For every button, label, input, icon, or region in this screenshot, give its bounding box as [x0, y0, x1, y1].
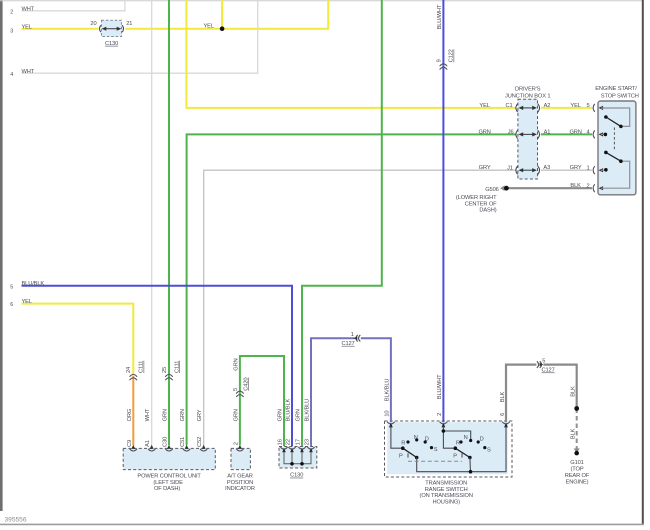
svg-text:YEL: YEL [479, 103, 489, 109]
svg-text:A1: A1 [544, 129, 551, 135]
svg-text:A3: A3 [543, 165, 550, 171]
svg-text:GRN: GRN [233, 409, 239, 421]
svg-text:R: R [401, 441, 405, 447]
svg-text:J1: J1 [507, 165, 513, 171]
svg-text:2: 2 [437, 413, 443, 416]
connector C130 inline connector body on wire row 3 [102, 20, 122, 36]
svg-text:C127: C127 [542, 368, 555, 374]
switch S1 internal stub from pin 1 [601, 169, 605, 171]
svg-text:G506: G506 [485, 187, 498, 193]
transmission range switch right blade [455, 448, 470, 457]
svg-text:ENGINE START/: ENGINE START/ [595, 86, 637, 92]
PCU pin 2 of A/T indicator terminal arc and arrow [236, 449, 243, 451]
connector C130 bottom block body [279, 447, 317, 469]
PCU pin C51 terminal arc and arrow [183, 449, 190, 451]
node dot pin 2 branch [442, 429, 446, 433]
svg-text:(TOP: (TOP [570, 467, 583, 473]
wire GRN from top edge down then left then down to C130 pin 17 [302, 0, 382, 446]
node dot C130 bus pin 17 [300, 462, 304, 466]
wire GRY junction box pin A3 to switch pin 1 [541, 169, 592, 171]
svg-text:1: 1 [587, 165, 590, 171]
svg-text:GRN: GRN [569, 129, 581, 135]
svg-text:D: D [425, 437, 429, 443]
transmission range switch right contacts R N D S dots [459, 440, 462, 443]
svg-text:C30: C30 [163, 437, 169, 447]
svg-text:2: 2 [233, 442, 239, 445]
svg-text:5: 5 [587, 103, 590, 109]
transmission range switch pin 2 branch to right N contact [443, 431, 470, 441]
svg-text:ORG: ORG [127, 409, 133, 422]
junction box pass-through pin C1-A2 arcs and arrow [516, 104, 540, 112]
PCU pin A1 terminal arc and arrow [148, 449, 155, 451]
svg-text:(LOWER RIGHT: (LOWER RIGHT [456, 195, 497, 201]
svg-text:WHT: WHT [22, 69, 35, 75]
junction box U1 DRIVER'S JUNCTION BOX 1 body [518, 99, 538, 179]
transmission range switch right blade drop to bus [469, 458, 472, 472]
svg-text:D: D [480, 437, 484, 443]
wire BLK from connector C127 right then down to splice node [543, 365, 576, 409]
svg-text:BLU/WHT: BLU/WHT [437, 374, 443, 399]
svg-text:BLK: BLK [570, 428, 576, 439]
wire GRN vertical from top edge to connector C111 pin 25 [168, 0, 170, 376]
svg-text:WHT: WHT [22, 7, 35, 13]
svg-text:S: S [487, 447, 491, 453]
transmission range switch mechanical link dashed [408, 460, 462, 462]
transmission range switch right blade pivot dot [454, 446, 458, 450]
switch S1 internal stub from pin 4 [601, 133, 604, 135]
transmission range switch left blade end dot [415, 456, 419, 460]
wire row 2 WHT horizontal then up to top edge [22, 0, 125, 11]
svg-text:STOP SWITCH: STOP SWITCH [601, 93, 639, 99]
wire BLU/WHT from connector C122 to transmission range switch pin 2 [442, 65, 444, 422]
svg-text:POWER CONTROL UNIT: POWER CONTROL UNIT [137, 473, 201, 479]
transmission range switch pin 6 terminal arc and arrow [502, 422, 510, 424]
junction box pass-through pin J1-A3 arcs and arrow [516, 166, 540, 174]
svg-text:(ON TRANSMISSION: (ON TRANSMISSION [420, 493, 473, 499]
connector C122 pin 9 symbol arcs [440, 64, 447, 70]
svg-text:BLK/BLU: BLK/BLU [385, 379, 391, 402]
svg-text:5: 5 [233, 388, 239, 391]
left page border bar [0, 0, 3, 511]
PCU pin C9 terminal arc and arrow [130, 449, 137, 451]
svg-text:4: 4 [10, 72, 13, 78]
svg-text:A/T GEAR: A/T GEAR [227, 473, 252, 479]
wire GRN from junction box pin J6 left then down to PCU pin C51 [187, 134, 516, 445]
wire GRN from connector C420 up then right then down to C130 pin 16 [240, 356, 284, 446]
switch S1 pin 4 contact dot [604, 133, 608, 137]
wire BLK dashed from splice node down to ground G101 [576, 409, 578, 450]
svg-text:BLU/BLK: BLU/BLK [22, 281, 45, 287]
svg-text:6: 6 [500, 413, 506, 416]
PCU pin C52 terminal arc and arrow [200, 449, 207, 451]
svg-text:BLU/WHT: BLU/WHT [437, 4, 443, 29]
transmission range switch left blade [403, 448, 417, 457]
svg-text:C51: C51 [180, 437, 186, 447]
connector C111 pin 24 symbol arcs [130, 374, 137, 380]
svg-text:C130: C130 [290, 473, 303, 479]
transmission range switch internal pin 2 feed [443, 426, 453, 448]
switch S1 blade 2 [606, 152, 621, 161]
ground G506 symbol [500, 185, 505, 191]
svg-text:9: 9 [436, 59, 442, 62]
svg-text:C130: C130 [105, 41, 118, 47]
svg-text:HOUSING): HOUSING) [432, 500, 460, 506]
connector C127 pin 5 symbol [537, 361, 542, 368]
wire YEL junction box pin A2 to switch pin 5 [541, 107, 592, 109]
svg-text:5: 5 [10, 285, 13, 291]
svg-text:WHT: WHT [145, 408, 151, 421]
svg-text:J6: J6 [508, 129, 514, 135]
PCU pin C30 terminal arc and arrow [165, 449, 172, 451]
svg-text:BLK/BLU: BLK/BLU [305, 399, 311, 422]
connector C420 pin 5 symbol arcs [236, 391, 243, 397]
connector C130 block pin 17 terminal arc and arrow [298, 447, 305, 449]
wire ORG from connector C111 pin 24 to PCU pin C9 [132, 376, 134, 445]
connector C130 block pin 22 terminal arc and arrow [288, 447, 295, 449]
svg-text:C127: C127 [341, 341, 354, 347]
svg-text:ENGINE): ENGINE) [566, 480, 589, 486]
svg-text:P: P [453, 454, 457, 460]
svg-text:(LEFT SIDE: (LEFT SIDE [153, 480, 183, 486]
wire YEL vertical branch from top edge to node at row 3 [221, 0, 223, 29]
svg-text:BLK: BLK [570, 386, 576, 397]
svg-text:GRN: GRN [180, 409, 186, 421]
wire BLK/BLU from connector C127 right then down to transmission range switch pin 10 [361, 338, 391, 422]
switch S1 pin 1 contact dot [604, 168, 608, 172]
transmission range switch left P tick [407, 453, 409, 457]
svg-text:16: 16 [278, 439, 284, 445]
svg-text:2: 2 [587, 183, 590, 189]
svg-text:N: N [414, 435, 418, 441]
svg-text:4: 4 [587, 129, 590, 135]
transmission range switch pin 10 terminal arc and arrow [387, 422, 395, 424]
wire row 4 WHT horizontal then up to top edge [22, 0, 258, 73]
svg-text:REAR OF: REAR OF [565, 473, 590, 479]
svg-text:A1: A1 [145, 440, 151, 447]
svg-text:C111: C111 [174, 361, 180, 373]
svg-text:GRY: GRY [570, 165, 582, 171]
transmission range switch internal pin 10 feed to left pivot [391, 426, 401, 448]
wire row 6 YEL horizontal then down to connector C111 pin 24 [22, 304, 134, 376]
svg-text:GRN: GRN [278, 409, 284, 421]
svg-text:10: 10 [385, 411, 391, 417]
svg-text:GRN: GRN [233, 358, 239, 370]
svg-text:6: 6 [10, 302, 13, 308]
wire WHT vertical from top edge to PCU pin A1 [151, 0, 153, 445]
switch S1 blade 1 [606, 117, 621, 126]
svg-text:C1: C1 [505, 103, 512, 109]
right page border line [642, 0, 644, 524]
svg-text:21: 21 [126, 21, 132, 27]
wire GRN from A/T gear position indicator pin 2 up to connector C420 [239, 393, 241, 445]
connector C130 block pin 23 terminal arc and arrow [307, 447, 314, 449]
switch S1 mechanical link dashed [613, 127, 615, 151]
svg-text:GRN: GRN [296, 409, 302, 421]
connector C130 inline symbol arcs and arrows on row 3 [100, 25, 124, 32]
svg-text:GRN: GRN [478, 129, 490, 135]
svg-text:N: N [464, 435, 468, 441]
svg-text:DRIVER'S: DRIVER'S [515, 86, 541, 92]
svg-text:JUNCTION BOX 1: JUNCTION BOX 1 [505, 93, 550, 99]
svg-text:YEL: YEL [22, 299, 32, 305]
wire row 3 YEL left segment to connector C130 [22, 28, 99, 30]
svg-text:2: 2 [10, 10, 13, 16]
switch S1 internal routing from pin 5 [601, 108, 630, 126]
node splice dot on BLK wire above ground G101 [574, 406, 579, 411]
svg-text:22: 22 [286, 439, 292, 445]
svg-text:YEL: YEL [570, 103, 580, 109]
svg-text:BLK: BLK [570, 183, 581, 189]
wire row 5 BLU/BLK horizontal then down to C130 pin 22 [22, 286, 293, 446]
svg-text:R: R [456, 441, 460, 447]
svg-text:25: 25 [162, 367, 168, 373]
switch S1 ENGINE START/STOP SWITCH body [598, 101, 636, 195]
bottom footer line [0, 523, 644, 525]
transmission range switch right blade end dot [468, 456, 472, 460]
svg-text:INDICATOR: INDICATOR [225, 486, 255, 492]
svg-text:395556: 395556 [5, 517, 27, 524]
svg-text:5: 5 [542, 359, 545, 365]
svg-text:C9: C9 [127, 440, 133, 447]
wire GRN vertical from connector C111 pin 25 to PCU pin C30 [168, 376, 170, 445]
node junction dot on wire row 3 YEL [220, 26, 225, 31]
switch S1 internal routing to pin 2 [601, 161, 630, 188]
switch S1 pin 2 terminal arc and arrow [593, 184, 595, 192]
svg-text:RANGE SWITCH: RANGE SWITCH [425, 487, 468, 493]
svg-text:GRY: GRY [479, 165, 491, 171]
svg-text:S: S [434, 447, 438, 453]
transmission range switch pin 2 terminal arc and arrow [440, 422, 448, 424]
wire BLU/WHT from top edge to connector C122 pin 9 [442, 0, 444, 65]
top page border line [0, 0, 643, 2]
svg-text:G101: G101 [570, 460, 583, 466]
switch S1 blade 2 contact dots [604, 151, 608, 155]
svg-text:P: P [399, 454, 403, 460]
svg-text:24: 24 [126, 367, 132, 373]
svg-text:C111: C111 [139, 361, 145, 373]
wire BLK/BLU from C130 pin 23 up then right to connector C127 pin 1 [311, 338, 354, 446]
switch S1 pin 5 terminal arc and arrow [593, 104, 595, 112]
transmission range switch left contacts R N D S dots [406, 440, 409, 443]
svg-text:GRN: GRN [163, 409, 169, 421]
svg-text:POSITION: POSITION [227, 480, 253, 486]
svg-text:BLU/BLK: BLU/BLK [286, 399, 292, 422]
transmission range switch right P tick [461, 453, 463, 457]
svg-text:3: 3 [10, 28, 13, 34]
svg-text:C420: C420 [243, 378, 249, 391]
svg-text:YEL: YEL [22, 25, 32, 31]
svg-text:DASH): DASH) [479, 208, 496, 214]
switch S1 pin 1 terminal arc and arrow [593, 166, 595, 174]
connector C130 block internal bus wiring [284, 452, 311, 464]
svg-text:17: 17 [296, 439, 302, 445]
svg-text:TRANSMISSION: TRANSMISSION [425, 481, 467, 487]
svg-text:BLK: BLK [500, 391, 506, 402]
wire BLK from transmission range switch pin 6 up then right to connector C127 pin 5 [506, 365, 536, 423]
connector C111 pin 25 symbol arcs [166, 374, 173, 380]
module U2 POWER CONTROL UNIT body [123, 448, 215, 469]
svg-text:OF DASH): OF DASH) [154, 486, 180, 492]
junction box pass-through pin J6-A1 arcs and arrow [516, 130, 540, 138]
switch S1 blade 1 contact dots [604, 115, 608, 119]
svg-text:20: 20 [90, 21, 96, 27]
svg-text:CENTER OF: CENTER OF [465, 201, 497, 207]
svg-text:C122: C122 [449, 49, 455, 62]
transmission range switch left blade pivot dot [401, 446, 405, 450]
wire GRN junction box pin A1 to switch pin 4 [541, 133, 592, 135]
node dot bottom bus [469, 470, 473, 474]
wire GRY from junction box pin J1 left then down to PCU pin C52 [204, 170, 516, 445]
module U3 A/T GEAR POSITION INDICATOR body [231, 448, 250, 469]
switch S1 pin 4 terminal arc and arrow [593, 130, 595, 138]
connector C127 pin 1 symbol [356, 335, 360, 342]
wire YEL from top edge down then right to junction box pin C1 [186, 0, 515, 108]
transmission range switch bottom bus from left blade to pin 6 [417, 426, 506, 472]
svg-text:23: 23 [305, 439, 311, 445]
switch S2 TRANSMISSION RANGE SWITCH body [387, 422, 508, 474]
ground G101 symbol [574, 449, 580, 453]
connector C130 block pin 16 terminal arc and arrow [280, 447, 287, 449]
svg-text:GRY: GRY [197, 409, 203, 421]
svg-text:A2: A2 [544, 103, 551, 109]
svg-text:YEL: YEL [204, 24, 214, 30]
node dot C130 bus pin 22 [290, 462, 294, 466]
svg-text:C52: C52 [197, 437, 203, 447]
wire row 3 YEL right segment from C130 to up-turn at top edge [125, 0, 328, 29]
wire BLK from ground G506 to switch pin 2 [509, 187, 593, 189]
svg-text:1: 1 [351, 332, 354, 338]
